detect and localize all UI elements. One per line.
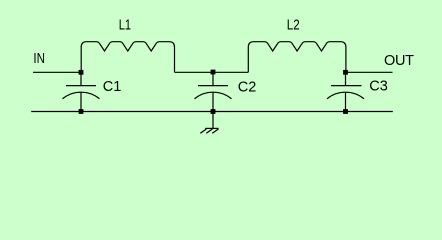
svg-text:IN: IN (33, 51, 45, 67)
node rail junction C2 (211, 109, 216, 114)
node OUT junction (343, 70, 348, 75)
wire ground rail (31, 111, 393, 113)
inductor L2 (248, 42, 346, 73)
inductor L1 (81, 42, 174, 73)
capacitor C2 (195, 72, 232, 111)
node rail junction C3 (343, 109, 348, 114)
svg-text:L1: L1 (119, 18, 131, 34)
wire OUT net (346, 71, 393, 73)
svg-text:OUT: OUT (384, 53, 414, 69)
svg-text:L2: L2 (287, 18, 300, 34)
node rail junction C1 (79, 109, 84, 114)
svg-text:C1: C1 (103, 79, 122, 95)
ground (200, 112, 218, 134)
svg-text:C2: C2 (238, 79, 257, 95)
capacitor C3 (327, 72, 364, 111)
wire L1 to L2 (175, 71, 249, 73)
node IN junction (79, 70, 84, 75)
capacitor C1 (63, 72, 100, 111)
svg-text:C3: C3 (369, 79, 388, 95)
node C2 top junction (211, 70, 216, 75)
wire IN net (33, 71, 81, 73)
